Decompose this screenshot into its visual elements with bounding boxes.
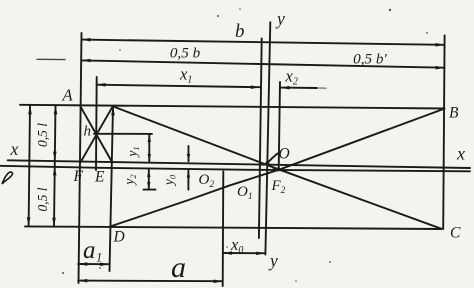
wire F2 vertical (279, 82, 280, 170)
svg-text:x: x (456, 144, 465, 164)
arrowheads dimension b (82, 38, 91, 42)
svg-text:E: E (94, 169, 105, 186)
node x-axis lower line (0, 166, 470, 172)
arrowheads dimension l (28, 105, 32, 114)
svg-text:y: y (275, 9, 285, 29)
node O dot (265, 161, 269, 165)
wire dimension line y2 (148, 170, 150, 189)
svg-text:C: C (450, 225, 461, 242)
wire diagonal top-F2-C (113, 106, 442, 228)
wire bottom edge D-C (25, 226, 442, 229)
wire D vertical (110, 106, 114, 271)
wire dimension line l (29, 105, 30, 226)
wire O leader (268, 154, 278, 163)
arrowheads dimension y0 (187, 154, 190, 161)
svg-text:O: O (279, 146, 290, 163)
wire dimension line y1 (148, 134, 150, 161)
arrowheads dimension y1 (148, 134, 151, 142)
wire dimension tail x2 (281, 87, 318, 89)
arrowheads dimension 0,5l (54, 105, 58, 114)
node F2 dot (276, 167, 280, 171)
wire O2 vertical (222, 172, 225, 287)
wire right edge B-C (443, 36, 444, 230)
wire dimension line a (78, 280, 222, 283)
label l rotated (2, 172, 13, 184)
node y-axis (265, 22, 270, 254)
wire center vertical b extension (259, 38, 262, 238)
wire left vertical A-F (79, 33, 82, 283)
svg-text:h: h (84, 124, 92, 140)
arrowhead dimension x2 (281, 86, 290, 90)
arrowheads dimension x0 (223, 251, 232, 255)
svg-text:a: a (171, 251, 186, 284)
svg-text:0,5 b′: 0,5 b′ (353, 51, 387, 68)
svg-text:F: F (73, 168, 84, 185)
svg-text:0,5 l: 0,5 l (35, 187, 50, 211)
wire dimension line y0 upper (188, 146, 190, 161)
wire dimension line x0 (223, 252, 265, 254)
wire y2 bottom tick (144, 189, 156, 191)
arrowheads dimension x1 (97, 83, 106, 87)
wire E vertical (95, 77, 98, 170)
node x-axis upper line (8, 160, 470, 168)
wire dimension line 0,5b (82, 60, 445, 67)
wire dimension line 0,5l (54, 105, 56, 227)
arrowheads dimension a (78, 279, 87, 283)
arrowheads dimension a1 (78, 262, 87, 266)
wire top edge A-B (20, 105, 445, 109)
wire dimension line x1 (97, 85, 260, 88)
speckles scan noise (217, 15, 219, 17)
arrowheads dimension 0,5b (82, 59, 91, 63)
svg-text:D: D (113, 229, 125, 246)
svg-text:0,5 l: 0,5 l (35, 123, 50, 147)
svg-text:x: x (10, 139, 19, 159)
wire X leg 2 (80, 107, 112, 163)
wire h tick (94, 133, 152, 135)
wire X leg 1 (80, 106, 112, 162)
wire diagonal D-F2-B (111, 109, 444, 226)
svg-text:B: B (449, 105, 459, 122)
svg-text:A: A (62, 86, 74, 105)
wire stray mark (37, 58, 65, 60)
svg-text:y: y (268, 251, 278, 271)
wire dimension line a1 (78, 263, 109, 265)
arrowheads dimension y2 (147, 170, 150, 177)
svg-text:b: b (235, 21, 245, 42)
svg-text:0,5 b: 0,5 b (170, 45, 201, 62)
arrowhead D vertical top (111, 106, 115, 115)
wire dimension line b (82, 40, 445, 45)
wire dimension line y0 lower (187, 170, 189, 189)
